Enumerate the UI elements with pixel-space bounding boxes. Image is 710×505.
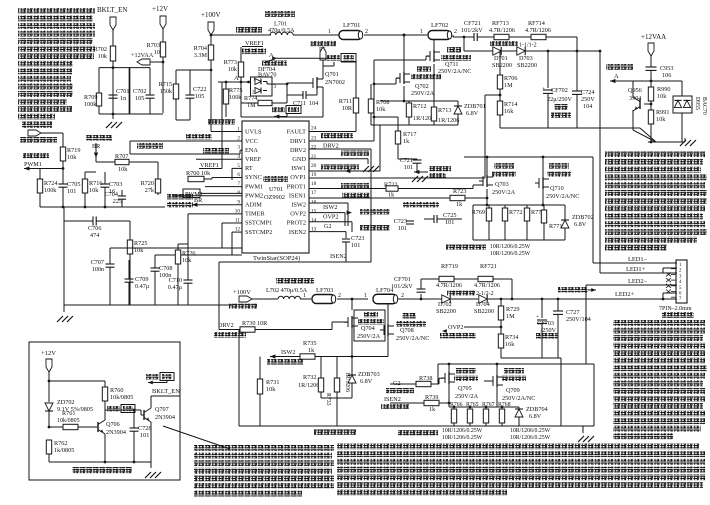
inductor L701 (storage inductor 1) [265, 11, 295, 35]
net label G2 (pin14) [309, 219, 352, 232]
EMI filter LF702 [420, 22, 457, 40]
net label LED1- [628, 256, 648, 263]
svg-text:OVP1: OVP1 [290, 174, 306, 181]
svg-text:1k: 1k [388, 192, 395, 199]
net label 续流管1-1/1-2 [490, 41, 537, 49]
capacitor C710 [168, 250, 232, 305]
svg-text:250V/2A/NC: 250V/2A/NC [546, 193, 579, 200]
svg-text:RT: RT [245, 165, 253, 172]
capacitor C701 [109, 68, 130, 114]
svg-text:10k: 10k [182, 257, 192, 264]
svg-text:1k: 1k [308, 347, 315, 354]
svg-text:VCC: VCC [245, 138, 258, 145]
wire Q956 leads [633, 81, 685, 142]
capacitor C725 [424, 212, 462, 226]
terminal +100V (boost2) [229, 289, 257, 309]
svg-text:10k: 10k [67, 154, 77, 161]
net label +12V供电欠电压保护 [72, 467, 132, 473]
capacitor C706 [64, 217, 130, 240]
capacitor C708 [151, 255, 243, 305]
svg-text:101/2kV: 101/2kV [391, 283, 413, 290]
resistor R769 [472, 205, 492, 240]
svg-text:UVLS: UVLS [245, 129, 262, 136]
capacitor C727 [553, 298, 591, 358]
svg-text:6.8V: 6.8V [360, 378, 373, 385]
svg-text:D704: D704 [476, 301, 490, 308]
resistor R722 [384, 182, 483, 199]
svg-text:SB2200: SB2200 [517, 62, 537, 69]
resistor R762 [46, 440, 74, 462]
resistor RF713 [489, 20, 531, 40]
value label TwinStar(SOP24) [253, 255, 300, 262]
op-amp U1 driver IC U701 OZ9902 box [242, 121, 309, 253]
terminal PWM/ADIM input [20, 130, 63, 147]
resistor R766 [451, 404, 457, 426]
capacitor C721 [398, 157, 428, 182]
svg-text:SSTCMP2: SSTCMP2 [245, 229, 272, 236]
value label D955 BAC70 (rotated) [694, 97, 707, 115]
svg-text:RF721: RF721 [480, 263, 497, 270]
svg-text:C722: C722 [193, 86, 206, 93]
capacitor C953 [646, 65, 674, 80]
svg-text:10R: 10R [342, 105, 353, 112]
svg-text:250V/2A: 250V/2A [492, 189, 516, 196]
svg-text:R719: R719 [67, 147, 80, 154]
svg-text:ISW2: ISW2 [323, 204, 337, 211]
svg-text:1-1/1-2: 1-1/1-2 [519, 43, 537, 49]
svg-text:BR: BR [92, 143, 101, 150]
svg-text:Q702: Q702 [415, 83, 429, 90]
value labels R766 R765 R767 R768 [450, 402, 511, 408]
svg-text:OVP2: OVP2 [448, 324, 463, 331]
svg-text:Q705: Q705 [458, 385, 472, 392]
svg-text:16: 16 [311, 199, 317, 205]
svg-text:250V/2A: 250V/2A [455, 393, 479, 400]
wire DRV1 gate drive [309, 56, 430, 141]
svg-text:R712: R712 [413, 103, 426, 110]
wire ISW2 drop [0, 0, 1, 1]
wire DF704 output to Q701 gate [272, 83, 313, 86]
wire delay output [651, 80, 682, 82]
transistor Q711 switch [426, 47, 471, 75]
svg-text:PWM1: PWM1 [245, 183, 263, 190]
net label 供电检测 (supply detect, pin1) [208, 70, 242, 132]
svg-text:R735: R735 [303, 340, 316, 347]
svg-text:10: 10 [154, 49, 160, 56]
capacitor C728 [130, 409, 152, 462]
svg-text:SB2200: SB2200 [474, 308, 494, 315]
wire boost2 source rail [300, 326, 388, 358]
svg-text:1k: 1k [403, 138, 410, 145]
resistor R724 [37, 179, 57, 194]
svg-text:Q709: Q709 [506, 387, 520, 394]
svg-text:C705: C705 [67, 181, 80, 188]
svg-text:R720: R720 [141, 180, 154, 187]
capacitor C711 [287, 87, 318, 107]
svg-text:R706: R706 [504, 75, 517, 82]
resistor R703 [147, 42, 166, 57]
svg-text:ZDB704: ZDB704 [526, 406, 548, 413]
resistor R729 [498, 298, 519, 334]
resistor R731 [257, 357, 279, 427]
wire LF701 to LF702 [364, 29, 427, 36]
resistor R711 [339, 62, 359, 113]
svg-text:10k: 10k [89, 187, 99, 194]
svg-text:10k: 10k [656, 116, 666, 123]
wire DRV2 drive (pin22) [219, 143, 371, 321]
svg-text:ISEN2: ISEN2 [330, 253, 347, 260]
wire protection ground rail [49, 461, 151, 464]
svg-text:10R/1206/0.25W: 10R/1206/0.25W [442, 435, 483, 441]
svg-text:CF702: CF702 [551, 87, 568, 94]
svg-text:R990: R990 [657, 86, 670, 93]
terminal +12V [152, 5, 168, 42]
net label 延迟保护 A (arrow) [606, 64, 652, 83]
value label 10R/1206/0.25W x2 (bank1) [490, 244, 531, 257]
svg-text:10k: 10k [98, 53, 108, 60]
diode ZDB702 zener [561, 205, 594, 240]
resistor R700 (SYNC pin6) [186, 170, 242, 182]
svg-text:ZD702: ZD702 [57, 399, 75, 406]
svg-text:C724: C724 [581, 89, 594, 96]
svg-text:DRV2: DRV2 [218, 322, 234, 329]
transistor Q703 dimmer switch [479, 163, 516, 196]
svg-text:4.7R/1206: 4.7R/1206 [489, 27, 515, 34]
svg-text:10R/1206/0.25W: 10R/1206/0.25W [490, 251, 531, 257]
resistor R767 [483, 409, 488, 426]
wire LED2+ line [512, 291, 677, 300]
svg-text:Q707: Q707 [155, 406, 169, 413]
svg-text:C702: C702 [133, 88, 146, 95]
svg-text:R703: R703 [147, 42, 160, 49]
svg-text:1M: 1M [506, 313, 515, 320]
wire boost2 bottom rail / ground [239, 426, 594, 442]
svg-text:101: 101 [398, 225, 407, 232]
transistor Q709 dimmer2 [484, 368, 535, 402]
resistor RF719 [436, 263, 462, 289]
svg-text:101: 101 [351, 242, 360, 249]
svg-text:22μ/250V: 22μ/250V [547, 96, 573, 103]
svg-text:0.47μ: 0.47μ [135, 283, 150, 290]
svg-text:4.7R/1206: 4.7R/1206 [474, 282, 500, 289]
wire boost1 drain bus [403, 34, 434, 74]
svg-text:OVP2: OVP2 [290, 211, 306, 218]
svg-text:TIMER: TIMER [245, 211, 265, 218]
net label 过电压保护1 OVP1 arrow [414, 166, 451, 178]
svg-text:10k: 10k [657, 93, 667, 100]
EMI filter LF704 [364, 287, 442, 304]
resistor R991 [648, 109, 669, 143]
svg-text:R731: R731 [266, 379, 279, 386]
svg-text:Q956: Q956 [628, 87, 642, 94]
wire VREF1 feed [218, 82, 241, 169]
svg-text:D701: D701 [494, 55, 508, 62]
resistor R712 [406, 101, 434, 125]
svg-text:LED1+: LED1+ [626, 266, 646, 273]
svg-text:VREF: VREF [245, 156, 262, 163]
svg-text:R702: R702 [94, 46, 107, 53]
svg-text:C723: C723 [351, 235, 364, 242]
svg-text:1R/1206: 1R/1206 [438, 117, 459, 124]
svg-text:105: 105 [135, 95, 144, 102]
svg-text:ISEN1: ISEN1 [289, 192, 306, 199]
wire LED1+ line [600, 266, 677, 273]
capacitor CF703 boost filter 2 [536, 298, 558, 358]
svg-text:R734: R734 [505, 334, 518, 341]
resistor R990 [648, 81, 670, 110]
svg-text:1k/0805: 1k/0805 [54, 447, 74, 454]
svg-text:R766: R766 [450, 402, 463, 408]
svg-text:1M: 1M [504, 82, 513, 89]
svg-text:100k: 100k [84, 101, 97, 108]
status label 保护/正常 (PS) [323, 54, 356, 67]
svg-text:2N7002: 2N7002 [325, 79, 345, 86]
svg-text:PROT2: PROT2 [287, 220, 306, 227]
ground (dimming filter) [57, 305, 232, 322]
svg-text:6.8V: 6.8V [529, 413, 542, 420]
wire LED1- line [593, 262, 677, 264]
svg-text:+100V: +100V [233, 289, 251, 296]
value label 7PIN-2.0mm LED连接器 [659, 306, 694, 318]
svg-text:10k: 10k [376, 106, 386, 113]
net labels 数字亮度 / 模拟亮度 (to IC) [167, 194, 193, 207]
resistor R704 [194, 45, 214, 71]
net label 升压输出2 (arrow) [558, 287, 596, 292]
svg-text:C725: C725 [443, 212, 456, 219]
wire PWM node [40, 161, 64, 184]
resistor R771 [541, 205, 562, 240]
transistor Q705 dimmer2 [441, 368, 479, 400]
diode D701 [492, 47, 512, 69]
svg-text:R774: R774 [244, 95, 257, 102]
svg-text:SYNC: SYNC [245, 174, 262, 181]
svg-text:R762: R762 [54, 440, 67, 447]
net labels G2 调流驱动2 ISEN2 电流检测2 (dimmer2 inputs) [381, 380, 414, 409]
resistor R715 [159, 70, 211, 120]
wire dimmer drain line [464, 156, 593, 263]
svg-text:250V/2A/NC: 250V/2A/NC [396, 335, 429, 342]
net label DRV2 R730 gate resistor [214, 320, 348, 338]
ground (protection) [145, 462, 161, 478]
wire dimming ground rail [40, 193, 165, 222]
svg-text:ISEN2: ISEN2 [384, 396, 401, 403]
resistor R732 [298, 357, 324, 399]
wire source sense rail boost1 [380, 64, 434, 102]
svg-text:R761: R761 [62, 410, 75, 417]
svg-text:10k: 10k [266, 386, 276, 393]
wire LF702 output [453, 35, 473, 37]
resistor RF721 [454, 263, 512, 299]
resistor R761 [48, 410, 95, 430]
wire dimmer2 top rail [438, 363, 594, 426]
svg-text:ISW2: ISW2 [281, 349, 295, 356]
svg-text:R732: R732 [303, 374, 316, 381]
capacitor C707 [91, 259, 115, 273]
svg-text:R771: R771 [549, 223, 562, 230]
svg-text:CF721: CF721 [464, 20, 481, 27]
ground (BKLT filter) [106, 114, 122, 128]
resistor R772 [502, 205, 522, 240]
diode ZDB704 zener [515, 406, 548, 426]
svg-text:R709: R709 [84, 94, 97, 101]
inductor L702 (storage inductor 2) [252, 278, 314, 299]
svg-text:474: 474 [90, 232, 99, 239]
svg-text:R775: R775 [229, 87, 242, 94]
svg-text:17: 17 [311, 190, 317, 196]
net label 调流控制电路1 [446, 244, 486, 250]
svg-text:1k: 1k [429, 406, 436, 413]
resistor R775 [223, 81, 242, 117]
svg-text:VREF1: VREF1 [200, 162, 219, 169]
svg-text:R733: R733 [325, 393, 331, 406]
svg-text:2: 2 [454, 29, 457, 35]
note: backlight description text block (bottom right) [613, 320, 707, 439]
svg-text:R768: R768 [498, 402, 511, 408]
svg-text:LED2–: LED2– [628, 278, 648, 285]
resistor R714 [485, 95, 517, 178]
transistor Q701 (2N7002) [308, 66, 345, 116]
svg-text:3: 3 [237, 145, 240, 151]
net label 电流检测1 (ISEN1 pin17) [309, 193, 450, 198]
note: OZ9902 protection text block (right) [605, 151, 707, 251]
svg-text:C709: C709 [135, 276, 148, 283]
transistor Q702 switch [396, 66, 441, 97]
wire divider ground [176, 62, 211, 120]
svg-text:ISW1: ISW1 [291, 165, 306, 172]
svg-text:10R/1206/0.25W: 10R/1206/0.25W [490, 244, 531, 250]
transistor Q707 [141, 396, 175, 462]
resistor R734 [498, 334, 518, 358]
svg-text:R725: R725 [134, 240, 147, 247]
resistor R738 [390, 375, 445, 387]
svg-text:+12VAA: +12VAA [641, 33, 666, 41]
resistor R707 [115, 153, 158, 179]
resistor R720 [141, 179, 161, 195]
svg-text:ISW2: ISW2 [291, 202, 306, 209]
wire filter ground rail [500, 125, 685, 142]
wire ISW2 net (pin16) [309, 203, 348, 226]
net label OVP2 (pin15) [309, 210, 352, 226]
net label 调流驱动1 (PROT1 pin18) [309, 183, 386, 189]
value label 10R/1206/0.25W x4 (bank2) [442, 428, 551, 441]
svg-text:R991: R991 [656, 109, 669, 116]
ground (GND pin21) [309, 159, 379, 172]
svg-text:DRV1: DRV1 [290, 138, 306, 145]
svg-text:R760: R760 [110, 387, 123, 394]
svg-text:TwinStar(SOP24): TwinStar(SOP24) [253, 255, 300, 262]
capacitor CF701 snubber [391, 276, 439, 300]
svg-text:101: 101 [445, 219, 454, 226]
resistor R760 [102, 381, 133, 410]
svg-text:A: A [234, 75, 239, 82]
wire freewheel diode line [463, 36, 600, 53]
wire boost2 box left edge [238, 330, 240, 426]
svg-text:101: 101 [404, 164, 413, 171]
wire sense resistor rail 2 [449, 406, 519, 409]
svg-text:1n: 1n [120, 95, 126, 102]
svg-text:Q710: Q710 [550, 185, 564, 192]
wire SSTCMP1 pin11 [222, 223, 242, 248]
svg-text:100n: 100n [92, 266, 104, 273]
wire SSTCMP2 pin12 [232, 232, 242, 255]
svg-text:16k: 16k [505, 341, 515, 348]
svg-text:10R/1206/0.25W: 10R/1206/0.25W [510, 428, 551, 434]
svg-text:PROT1: PROT1 [287, 183, 306, 190]
svg-text:ADIM: ADIM [245, 202, 262, 209]
diode ZD702 zener [45, 399, 93, 427]
svg-text:2: 2 [365, 29, 368, 35]
net label 升压输出电路2 [314, 429, 356, 435]
svg-text:4.7R/1206: 4.7R/1206 [436, 282, 462, 289]
svg-text:1: 1 [303, 293, 306, 299]
svg-text:PWM2: PWM2 [245, 192, 263, 199]
resistor R702 [94, 46, 116, 61]
wire TIMER pin10 [188, 214, 242, 250]
capacitor C724 [572, 51, 595, 128]
terminal +100V [201, 11, 221, 45]
svg-text:C727: C727 [566, 309, 579, 316]
svg-text:ENA: ENA [245, 147, 258, 154]
svg-text:1: 1 [420, 29, 423, 35]
capacitor C723 [394, 218, 414, 232]
svg-text:100k: 100k [44, 187, 57, 194]
svg-text:2N3904: 2N3904 [106, 429, 126, 436]
svg-text:19: 19 [311, 172, 317, 178]
wire sense ground rail 1 [473, 205, 565, 240]
svg-text:101: 101 [140, 432, 149, 439]
transistor Q956 [628, 87, 651, 111]
svg-text:G2: G2 [324, 223, 332, 230]
svg-text:C728: C728 [138, 425, 151, 432]
svg-text:R729: R729 [506, 306, 519, 313]
svg-text:20: 20 [311, 163, 317, 169]
resistor R706 [497, 51, 517, 101]
svg-text:+12V: +12V [152, 5, 168, 13]
wire BKLT divider node [99, 61, 163, 115]
svg-text:1k: 1k [456, 201, 463, 208]
net label 续流管2-1/2-2 [447, 290, 494, 297]
wire boost2 filter rail [501, 358, 561, 426]
svg-text:10R/1206/0.25W: 10R/1206/0.25W [510, 435, 551, 441]
terminal +12V (protection) [41, 350, 56, 381]
svg-text:106: 106 [662, 72, 671, 79]
EMI filter LF701 [339, 22, 363, 40]
wire boost1 output to LED1+ [599, 50, 602, 273]
svg-text:R730 10R: R730 10R [242, 320, 268, 327]
svg-text:CF703: CF703 [537, 320, 554, 327]
wire VCC pin2 [183, 134, 242, 141]
transistor Q710 dimmer switch [535, 163, 579, 200]
svg-text:R715: R715 [159, 81, 172, 88]
svg-text:Q704: Q704 [361, 325, 375, 332]
svg-text:101: 101 [67, 188, 76, 195]
capacitor C726 (ISEN2 pin13) [309, 232, 364, 262]
capacitor C704 [105, 190, 126, 207]
svg-text:FAULT: FAULT [287, 129, 306, 136]
svg-text:2: 2 [338, 293, 341, 299]
status label 保护/正常 (Q707) [146, 373, 174, 385]
svg-text:RF719: RF719 [441, 263, 458, 270]
capacitor C722 [186, 70, 207, 120]
EMI filter LF703 [312, 287, 368, 304]
capacitor C702 [133, 88, 155, 102]
net label BKLT_EN (protection out) [151, 388, 180, 396]
net label 升压激励1 [321, 133, 353, 139]
terminal +12VAA (delay circuit) [641, 33, 666, 67]
svg-text:C707: C707 [91, 259, 104, 266]
svg-text:BAC70: BAC70 [701, 97, 707, 115]
wire OVP1 sense [309, 177, 485, 179]
